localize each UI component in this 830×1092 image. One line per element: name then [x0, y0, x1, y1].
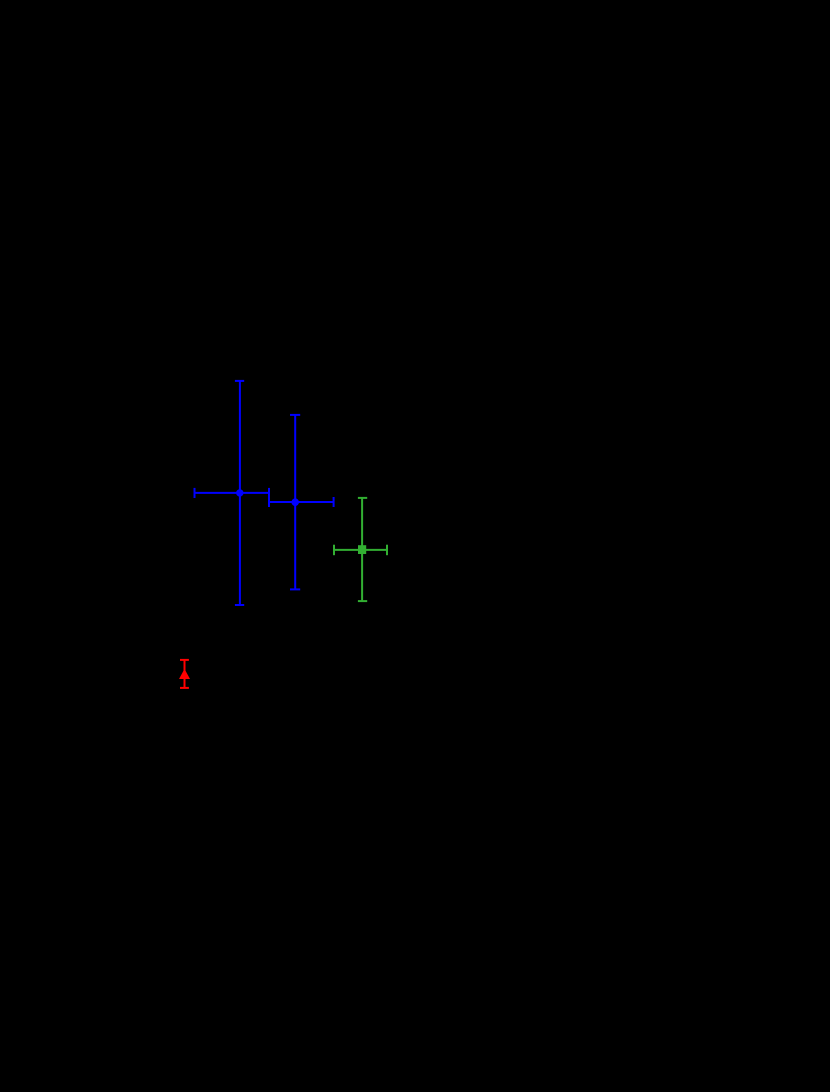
data point P2 (blue circle) marker	[291, 498, 299, 506]
data point P4 (red triangle) error bar	[180, 660, 189, 688]
data point P1 (blue circle) error bars	[195, 381, 270, 605]
data point P3 (green square) error bars	[334, 498, 387, 601]
data point P1 (blue circle) marker	[236, 489, 243, 496]
data point P4 (red triangle) marker	[179, 669, 190, 679]
data point P2 (blue circle) error bars	[269, 415, 334, 590]
data point P3 (green square) marker	[358, 545, 366, 554]
